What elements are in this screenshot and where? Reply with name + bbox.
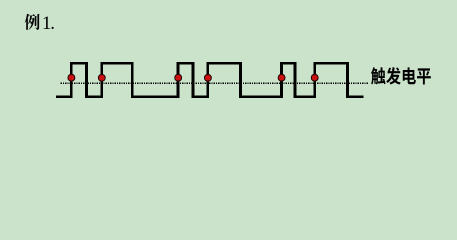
svg-text:1.: 1. (42, 13, 54, 34)
trigger point dot 3 (175, 74, 182, 81)
trigger point dot 6 (311, 74, 318, 81)
char 电 (403, 67, 416, 84)
char 发 (386, 67, 401, 84)
char 例 (25, 14, 40, 30)
waveform trace (square wave signal) (56, 63, 363, 97)
char 平 (417, 68, 431, 84)
trigger point dot 1 (68, 74, 75, 81)
trigger point dot 4 (204, 74, 211, 81)
trigger level dotted line (61, 82, 369, 84)
trigger point dot 2 (98, 74, 105, 81)
trigger point dot 5 (278, 74, 285, 81)
char 触 (371, 67, 386, 84)
